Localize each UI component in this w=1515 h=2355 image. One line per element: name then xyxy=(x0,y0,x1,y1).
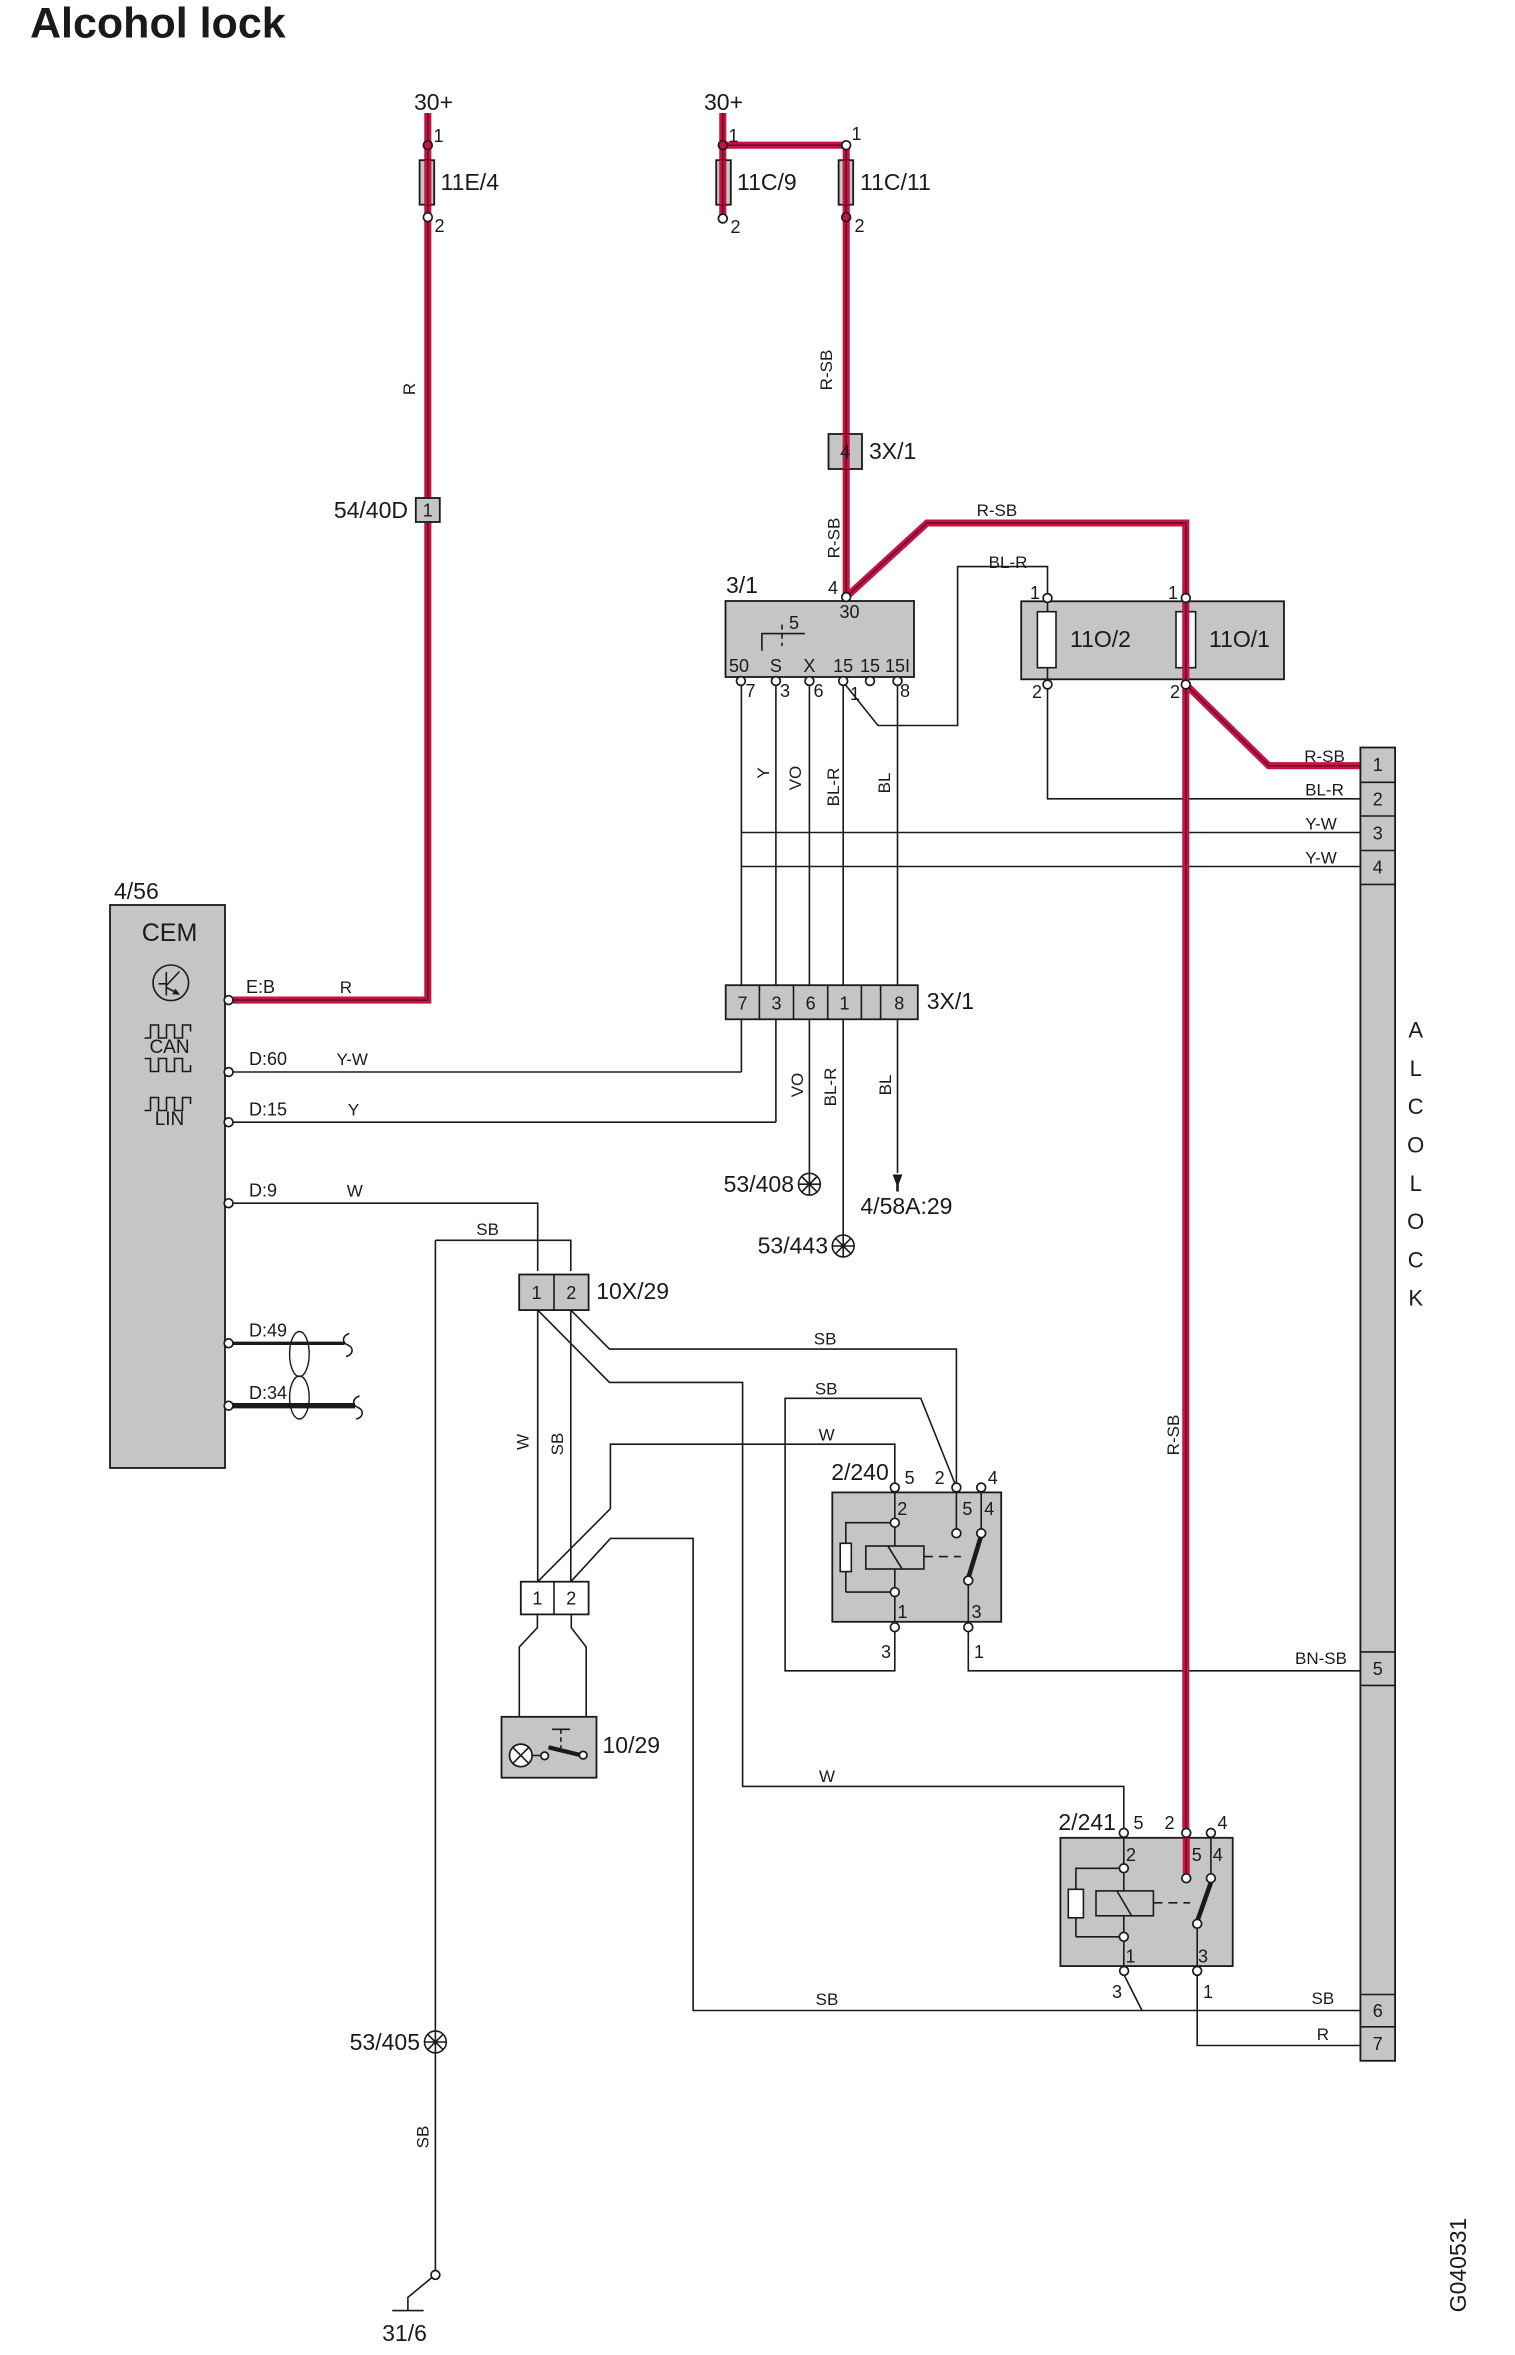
svg-text:O: O xyxy=(1407,1209,1424,1234)
connector 3X/1 pin 4 box xyxy=(829,434,863,469)
svg-text:4/58A:29: 4/58A:29 xyxy=(860,1193,952,1219)
svg-text:3: 3 xyxy=(771,994,781,1014)
svg-text:SB: SB xyxy=(1312,1989,1335,2008)
svg-text:15: 15 xyxy=(833,656,853,676)
svg-text:50: 50 xyxy=(729,656,749,676)
svg-text:SB: SB xyxy=(816,1990,839,2009)
svg-text:2: 2 xyxy=(855,216,865,236)
pin D:15 of CEM xyxy=(224,1118,233,1127)
svg-text:2: 2 xyxy=(435,216,445,236)
svg-text:4: 4 xyxy=(828,578,838,598)
svg-text:2/241: 2/241 xyxy=(1058,1809,1116,1835)
svg-text:7: 7 xyxy=(737,994,747,1014)
wire R: relay 2/241 pin 1 to ALCOLOCK pin 7 xyxy=(1197,1975,1360,2045)
twisted pair wire CEM D:49 xyxy=(233,1342,345,1345)
svg-text:4: 4 xyxy=(840,442,850,462)
wire BL-R net: 3/1 pin 15 to splice 53/443 xyxy=(842,685,844,1235)
pin 2 of 11C/11 xyxy=(842,213,851,222)
svg-text:5: 5 xyxy=(1192,1845,1202,1865)
svg-text:W: W xyxy=(819,1426,835,1445)
pin 5 of 2/241 xyxy=(1119,1829,1128,1838)
svg-text:L: L xyxy=(1410,1171,1422,1196)
wire SB link: relay 2/240 pin 2 to pin 3 xyxy=(785,1398,955,1671)
wire Y-W branch to ALCOLOCK pin 4 xyxy=(741,866,1360,868)
fuse holder 11O/2 11O/1 box xyxy=(1021,601,1284,679)
svg-text:R-SB: R-SB xyxy=(817,350,836,391)
splice 53/443 xyxy=(832,1235,854,1257)
svg-text:2/240: 2/240 xyxy=(831,1459,889,1485)
relay 2/241 switch contact and red stub xyxy=(1183,1838,1190,1874)
svg-text:7: 7 xyxy=(745,681,755,701)
svg-text:15: 15 xyxy=(860,656,880,676)
twist symbol of twisted pair xyxy=(290,1332,310,1377)
svg-text:R-SB: R-SB xyxy=(1164,1415,1183,1456)
pin 15b of 3/1 xyxy=(866,677,875,686)
svg-text:2: 2 xyxy=(566,1283,576,1303)
wire R-SB (red) through connector 3X/1 pin 4 xyxy=(843,434,850,469)
svg-text:R-SB: R-SB xyxy=(825,518,844,559)
svg-text:5: 5 xyxy=(905,1468,915,1488)
wire Y-W branch to ALCOLOCK pin 3 xyxy=(741,832,1360,834)
pin 2 of 11C/9 xyxy=(718,214,727,223)
relay 2/241 box xyxy=(1060,1838,1232,1966)
svg-text:8: 8 xyxy=(894,994,904,1014)
svg-text:11C/9: 11C/9 xyxy=(737,169,797,195)
svg-text:D:49: D:49 xyxy=(249,1321,287,1341)
svg-text:W: W xyxy=(347,1182,363,1201)
svg-text:D:34: D:34 xyxy=(249,1383,287,1403)
CEM LIN symbol xyxy=(145,1098,191,1111)
svg-text:3: 3 xyxy=(881,1642,891,1662)
svg-text:3: 3 xyxy=(971,1602,981,1622)
svg-text:11C/11: 11C/11 xyxy=(860,169,931,195)
control module 4/56 CEM box xyxy=(110,905,225,1468)
wire Y-W net: CEM D:60 to 3X/1 pin 7 to 3/1 pin 50 xyxy=(233,681,741,1072)
pin D:34 of CEM xyxy=(224,1401,233,1410)
svg-text:1: 1 xyxy=(532,1283,542,1303)
pin 2 of 11O/2 xyxy=(1043,680,1052,689)
wire VO net: 3/1 pin X to splice 53/408 xyxy=(808,681,810,1173)
twisted pair wire CEM D:34 xyxy=(233,1403,355,1408)
svg-text:SB: SB xyxy=(414,2126,433,2149)
svg-text:A: A xyxy=(1408,1018,1423,1043)
ALCOLOCK unit column xyxy=(1360,748,1395,2061)
svg-text:2: 2 xyxy=(1032,682,1042,702)
wire BL-R branch: 3/1 pin 15 to fuse 11O/2 pin 1 xyxy=(843,567,1047,726)
svg-text:1: 1 xyxy=(423,501,433,521)
connector 54/40D box xyxy=(416,498,440,522)
svg-text:VO: VO xyxy=(786,766,805,791)
svg-text:10X/29: 10X/29 xyxy=(596,1278,669,1304)
pin 30 of 3/1 xyxy=(842,593,851,602)
svg-text:54/40D: 54/40D xyxy=(334,497,408,523)
svg-text:2: 2 xyxy=(1170,682,1180,702)
switch symbol inside 3/1 xyxy=(762,634,805,651)
pin 5 of 2/240 xyxy=(890,1483,899,1492)
svg-text:Y-W: Y-W xyxy=(336,1050,368,1069)
svg-text:1: 1 xyxy=(1030,583,1040,603)
svg-text:3: 3 xyxy=(1112,1982,1122,2002)
svg-text:5: 5 xyxy=(789,613,799,633)
svg-text:2: 2 xyxy=(935,1468,945,1488)
pin 3 of 2/240 xyxy=(890,1623,899,1632)
svg-text:1: 1 xyxy=(839,994,849,1014)
pin 1 of 11O/1 xyxy=(1181,594,1190,603)
svg-text:2: 2 xyxy=(1126,1845,1136,1865)
svg-text:SB: SB xyxy=(815,1380,838,1399)
pin D:60 of CEM xyxy=(224,1068,233,1077)
svg-text:L: L xyxy=(1410,1056,1422,1081)
svg-text:8: 8 xyxy=(900,681,910,701)
connector 3X/1 row box xyxy=(726,985,918,1019)
pin D:9 of CEM xyxy=(224,1199,233,1208)
svg-text:R: R xyxy=(1317,2025,1329,2044)
svg-text:K: K xyxy=(1408,1286,1423,1311)
svg-text:Y-W: Y-W xyxy=(1305,815,1337,834)
svg-text:BL-R: BL-R xyxy=(1305,781,1344,800)
svg-text:4/56: 4/56 xyxy=(114,878,159,904)
svg-text:R-SB: R-SB xyxy=(977,501,1018,520)
svg-text:30: 30 xyxy=(840,602,860,622)
svg-text:53/443: 53/443 xyxy=(758,1233,828,1259)
wire BN-SB: relay 2/240 pin 1 to ALCOLOCK pin 5 xyxy=(968,1632,1360,1671)
svg-text:SB: SB xyxy=(476,1220,499,1239)
svg-text:R: R xyxy=(340,978,352,997)
svg-text:11E/4: 11E/4 xyxy=(441,169,500,195)
svg-text:O: O xyxy=(1407,1133,1424,1158)
pin 1 of 2/240 xyxy=(964,1623,973,1632)
svg-text:BL-R: BL-R xyxy=(821,1068,840,1107)
fuse 11O/2 element xyxy=(1047,599,1049,683)
svg-text:15I: 15I xyxy=(885,656,910,676)
svg-text:1: 1 xyxy=(897,1602,907,1622)
svg-text:3: 3 xyxy=(780,681,790,701)
svg-text:W: W xyxy=(513,1434,532,1450)
svg-text:1: 1 xyxy=(1168,583,1178,603)
svg-text:1: 1 xyxy=(852,124,862,144)
relay 2/240 box xyxy=(832,1492,1001,1621)
wire SB branch: 10X/29 pin 2 to relay 2/240 pin 2 xyxy=(571,1310,957,1483)
svg-text:2: 2 xyxy=(897,1499,907,1519)
svg-text:4: 4 xyxy=(1217,1813,1227,1833)
splice 53/405 xyxy=(425,2031,447,2053)
wire W branch: 10X/29 pin 1 to relay 2/241 pin 5 xyxy=(538,1310,1124,1829)
svg-text:G040531: G040531 xyxy=(1445,2218,1471,2313)
inline connector box (white 1 2) xyxy=(521,1582,589,1615)
svg-text:BL: BL xyxy=(876,1075,895,1096)
svg-text:7: 7 xyxy=(1373,2034,1383,2054)
svg-text:Y: Y xyxy=(348,1101,359,1120)
svg-text:6: 6 xyxy=(813,681,823,701)
svg-text:2: 2 xyxy=(1373,790,1383,810)
svg-text:S: S xyxy=(770,656,782,676)
svg-text:5: 5 xyxy=(1133,1813,1143,1833)
pin E:B of CEM xyxy=(224,996,233,1005)
svg-text:4: 4 xyxy=(1373,858,1383,878)
ignition switch 3/1 box xyxy=(726,601,915,677)
svg-text:Y: Y xyxy=(754,767,773,778)
pin 1 of 11E/4 xyxy=(423,141,432,150)
svg-text:1: 1 xyxy=(1373,755,1383,775)
svg-text:SB: SB xyxy=(814,1330,837,1349)
svg-text:3X/1: 3X/1 xyxy=(927,988,974,1014)
svg-text:1: 1 xyxy=(729,126,739,146)
svg-text:4: 4 xyxy=(1213,1845,1223,1865)
pin S of 3/1 xyxy=(772,677,781,686)
svg-text:W: W xyxy=(819,1767,835,1786)
fuse 11E/4 body xyxy=(420,160,435,205)
svg-text:4: 4 xyxy=(984,1499,994,1519)
svg-text:1: 1 xyxy=(850,684,860,704)
pin 50 of 3/1 xyxy=(737,677,746,686)
pin 1 of 11C/9 xyxy=(718,141,727,150)
wire R-SB (red): 3/1 pin 30 to fuse 11O/1 pin 1 and down to relay 2/241 pin 2 xyxy=(846,523,1186,1831)
svg-text:4: 4 xyxy=(988,1468,998,1488)
connector 10X/29 box xyxy=(519,1275,588,1311)
pin 4 of 2/240 xyxy=(977,1483,986,1492)
svg-text:C: C xyxy=(1408,1094,1424,1119)
wire R-SB (red): fuse 11O/1 pin 2 to ALCOLOCK pin 1 xyxy=(1186,685,1361,766)
pin 2 of 2/241 xyxy=(1182,1829,1191,1838)
svg-text:LIN: LIN xyxy=(155,1109,185,1130)
svg-text:6: 6 xyxy=(1373,2001,1383,2021)
pin D:49 of CEM xyxy=(224,1339,233,1348)
svg-text:11O/2: 11O/2 xyxy=(1070,626,1131,652)
svg-text:BL-R: BL-R xyxy=(989,553,1028,572)
wire SB: 10X/29 pin 2 down to inline connector pin 2 xyxy=(570,1310,572,1582)
svg-text:1: 1 xyxy=(532,1589,542,1609)
svg-text:D:15: D:15 xyxy=(249,1100,287,1120)
wire BL net: 3/1 pin 15I to arrow 4/58A:29 xyxy=(897,685,899,1173)
svg-text:5: 5 xyxy=(1373,1659,1383,1679)
svg-text:R-SB: R-SB xyxy=(1304,747,1345,766)
arrow to 4/58A:29 xyxy=(893,1175,903,1192)
svg-text:1: 1 xyxy=(1203,1982,1213,2002)
svg-text:R: R xyxy=(400,383,419,395)
lamp switch 10/29 box xyxy=(502,1717,597,1778)
pin 15I of 3/1 xyxy=(893,677,902,686)
svg-text:53/408: 53/408 xyxy=(724,1171,794,1197)
svg-text:D:9: D:9 xyxy=(249,1181,277,1201)
svg-text:SB: SB xyxy=(548,1433,567,1456)
svg-text:2: 2 xyxy=(1164,1813,1174,1833)
pin 2 of 2/240 xyxy=(952,1483,961,1492)
wire SB: inline connector pin 2 to switch 10/29 xyxy=(571,1614,586,1751)
svg-text:10/29: 10/29 xyxy=(603,1732,661,1758)
svg-text:11O/1: 11O/1 xyxy=(1209,626,1270,652)
pin 1 of 2/241 xyxy=(1193,1967,1202,1976)
ground 31/6 xyxy=(431,2271,440,2280)
svg-text:1: 1 xyxy=(974,1642,984,1662)
fuse 11O/1 element xyxy=(1176,612,1196,668)
svg-text:X: X xyxy=(803,656,815,676)
wire W: 10X/29 pin 1 down to inline connector pin 1 xyxy=(537,1310,539,1582)
wire SB net: junction to 10X/29 pin 2 xyxy=(435,1240,570,1271)
splice 53/408 xyxy=(799,1173,821,1195)
svg-text:30+: 30+ xyxy=(414,89,453,115)
fuse 11C/9 body xyxy=(716,160,731,205)
svg-text:CEM: CEM xyxy=(142,919,198,947)
wire Y net: CEM D:15 to 3X/1 pin 3 to 3/1 pin S xyxy=(233,681,776,1122)
pin 4 of 2/241 xyxy=(1207,1829,1216,1838)
svg-text:C: C xyxy=(1408,1247,1424,1272)
svg-text:CAN: CAN xyxy=(149,1037,189,1058)
relay 2/240 coil circuit xyxy=(894,1492,896,1625)
svg-text:BN-SB: BN-SB xyxy=(1295,1649,1347,1668)
lamp and switch inside 10/29 xyxy=(510,1744,533,1767)
fuse 11C/11 body xyxy=(839,160,854,205)
wire BL-R: fuse 11O/2 pin 2 to ALCOLOCK pin 2 xyxy=(1048,688,1361,799)
wire R (red): feed 30+ through fuse 11E/4 and 54/40D to CEM E:B xyxy=(233,113,428,1000)
CEM CAN symbol xyxy=(145,1025,191,1038)
pin 2 of 11E/4 xyxy=(423,213,432,222)
svg-text:E:B: E:B xyxy=(246,977,275,997)
pin 2 of 11O/1 xyxy=(1181,680,1190,689)
wire W branch: inline connector pin 1 to relay 2/240 pin 5 xyxy=(538,1444,895,1582)
wire SB branch: inline connector pin 2 to ALCOLOCK pin 6 xyxy=(571,1538,1361,2010)
CEM transistor symbol xyxy=(153,965,189,1001)
svg-text:3: 3 xyxy=(1373,824,1383,844)
svg-text:BL-R: BL-R xyxy=(824,768,843,807)
svg-text:31/6: 31/6 xyxy=(382,2320,427,2346)
svg-text:53/405: 53/405 xyxy=(350,2029,420,2055)
svg-text:VO: VO xyxy=(788,1073,807,1098)
svg-text:Y-W: Y-W xyxy=(1305,849,1337,868)
svg-text:1: 1 xyxy=(434,126,444,146)
wire R-SB (red): 11C/11 down through 3X/1 pin 4 to 3/1 pin 30 xyxy=(843,145,850,595)
svg-text:Alcohol lock: Alcohol lock xyxy=(30,0,286,48)
wire W net: CEM D:9 to 10X/29 pin 1 xyxy=(233,1203,538,1271)
wire SB diagonal: relay 2/241 pin 3 to SB line xyxy=(1124,1975,1142,2011)
svg-text:5: 5 xyxy=(962,1499,972,1519)
pin 15 of 3/1 xyxy=(839,677,848,686)
wire W: inline connector pin 1 to lamp 10/29 xyxy=(519,1614,537,1744)
relay 2/240 switch contact xyxy=(956,1492,981,1625)
relay 2/241 coil circuit xyxy=(1123,1838,1125,1969)
wire R-SB (red): feed 30+ through fuse 11C/9 stub xyxy=(719,113,726,217)
svg-text:2: 2 xyxy=(566,1589,576,1609)
wire (red): bridge 11C/9 pin 1 to 11C/11 pin 1 xyxy=(723,142,846,149)
pin 1 of 11C/11 xyxy=(842,141,851,150)
svg-text:30+: 30+ xyxy=(704,89,743,115)
pin 1 of 11O/2 xyxy=(1043,594,1052,603)
svg-text:6: 6 xyxy=(806,994,816,1014)
svg-text:2: 2 xyxy=(731,217,741,237)
svg-text:3X/1: 3X/1 xyxy=(869,438,916,464)
svg-text:3/1: 3/1 xyxy=(726,572,758,598)
svg-text:3: 3 xyxy=(1198,1947,1208,1967)
pin 3 of 2/241 xyxy=(1120,1967,1129,1976)
svg-text:1: 1 xyxy=(1125,1947,1135,1967)
svg-text:D:60: D:60 xyxy=(249,1049,287,1069)
pin X of 3/1 xyxy=(805,677,814,686)
svg-text:BL: BL xyxy=(875,773,894,794)
wire SB: down to splice 53/405 and ground xyxy=(434,1240,436,2270)
